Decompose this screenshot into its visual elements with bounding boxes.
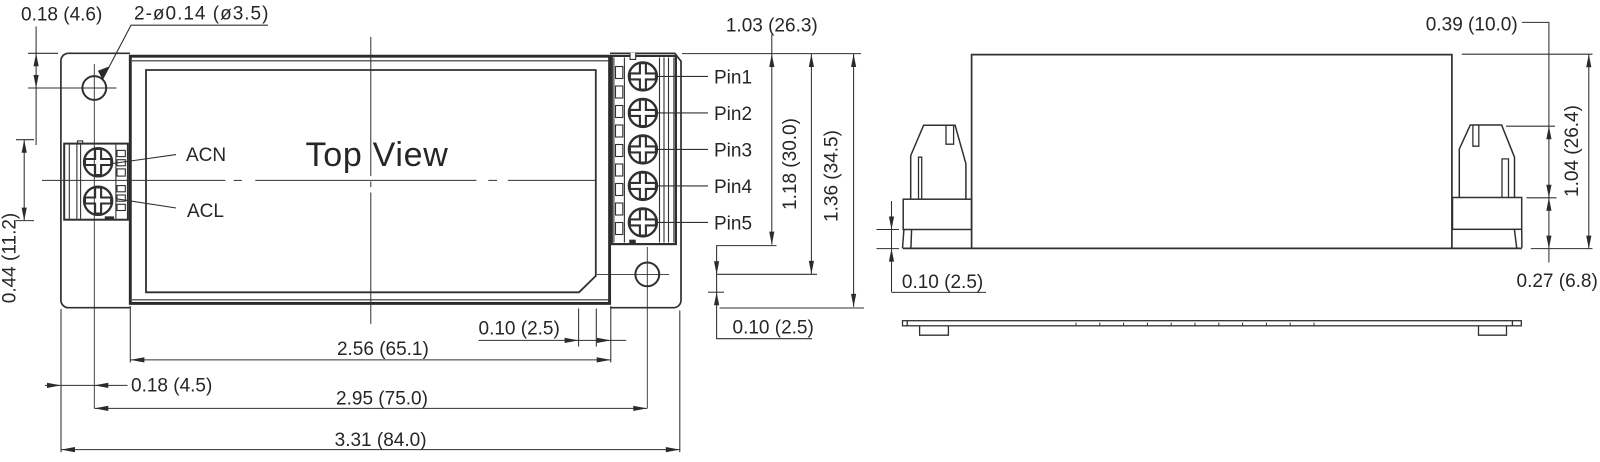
ext line flange bottom right [720, 307, 865, 309]
plate right clip [1479, 326, 1507, 335]
left latch foot [903, 199, 971, 229]
svg-text:2.95 (75.0): 2.95 (75.0) [336, 388, 428, 409]
screw ACN [84, 148, 112, 176]
right terminal block outline [612, 56, 676, 244]
right small foot [1514, 229, 1522, 248]
0.18(4.5) arrows [47, 383, 61, 388]
2.95 arrows [94, 406, 108, 411]
leader ACN [113, 155, 176, 164]
svg-text:2.56 (65.1): 2.56 (65.1) [337, 339, 429, 360]
top face rectangle with chamfered corner [146, 70, 596, 292]
dim 0.44 (11.2) line [23, 140, 25, 221]
ext body top right [1462, 53, 1593, 55]
dim 1.36 line [853, 54, 855, 307]
left latch hook [911, 125, 966, 199]
svg-text:ACN: ACN [186, 145, 226, 166]
3.31 arrows [61, 447, 75, 452]
svg-text:0.10 (2.5): 0.10 (2.5) [902, 272, 983, 293]
dim 0.18 (4.5) line [45, 384, 128, 386]
right latch foot [1453, 198, 1522, 230]
svg-text:Pin3: Pin3 [714, 140, 752, 161]
ext line block bottom [716, 245, 776, 247]
svg-text:0.10 (2.5): 0.10 (2.5) [479, 319, 560, 340]
dim 1.18 line [810, 54, 812, 274]
dim 2.95 line [94, 407, 647, 409]
left latch side slot [919, 157, 922, 199]
hole axis vertical right [646, 247, 648, 408]
left block top notch [78, 141, 83, 144]
mounting hole bottom-right [635, 263, 659, 287]
svg-text:Pin1: Pin1 [714, 67, 752, 88]
leader Pin2 [656, 112, 708, 114]
dim 0.18 (4.6) vertical line [35, 26, 37, 145]
horizontal centerline [42, 179, 596, 181]
leader Pin3 [656, 148, 708, 150]
1.04 arrows [1586, 54, 1591, 67]
svg-text:1.18 (30.0): 1.18 (30.0) [780, 118, 801, 210]
svg-text:0.18 (4.6): 0.18 (4.6) [21, 4, 102, 25]
body inner ledge top [132, 60, 608, 62]
screw Pin5 [629, 208, 657, 236]
dim 1.03 line [771, 35, 773, 245]
hole crosshair horizontal right [597, 273, 669, 275]
body inner ledge bottom [132, 299, 608, 301]
svg-text:ACL: ACL [187, 201, 224, 222]
screw Pin2 [629, 99, 657, 127]
ext hook top [1506, 125, 1555, 127]
svg-text:3.31 (84.0): 3.31 (84.0) [335, 430, 427, 451]
plate ticks [1076, 323, 1314, 326]
dim 1.04 line [1588, 54, 1590, 248]
right block left strip walls [613, 58, 615, 243]
left block inner walls [68, 145, 70, 219]
svg-text:Pin2: Pin2 [714, 104, 752, 125]
module body outline (thick) [130, 56, 609, 303]
svg-text:Pin4: Pin4 [714, 177, 752, 198]
screw Pin3 [629, 135, 657, 163]
screw Pin4 [629, 172, 657, 200]
leader ACL [117, 199, 177, 208]
0.18(4.6) arrows [33, 53, 38, 66]
ext line body top right [682, 53, 861, 55]
vertical centerline [370, 37, 372, 324]
0.10 right arrows (outside) [714, 261, 719, 274]
right latch side slot [1502, 159, 1509, 198]
left block clamp bars upper [117, 150, 125, 156]
left block bottom notch (dark) [105, 217, 113, 220]
svg-text:0.10 (2.5): 0.10 (2.5) [733, 318, 814, 339]
1.36 arrows [851, 54, 856, 67]
mounting plate below side view [903, 321, 1522, 336]
left mounting flange tab [61, 53, 130, 307]
svg-text:0.27 (6.8): 0.27 (6.8) [1517, 271, 1598, 292]
0.27 arrows [1546, 198, 1551, 211]
screw ACL [84, 187, 112, 215]
side body outline [903, 55, 1522, 249]
side 0.10 arrows [889, 217, 894, 230]
right mounting flange tab [610, 53, 681, 307]
left latch top slot [946, 125, 954, 144]
dim 0.10 side left [892, 201, 987, 292]
leader arrow hole [98, 66, 110, 79]
svg-text:1.03 (26.3): 1.03 (26.3) [726, 15, 818, 36]
right block right strip walls [659, 58, 661, 243]
svg-text:0.18 (4.5): 0.18 (4.5) [131, 376, 212, 397]
left small foot [903, 230, 912, 249]
leader Pin4 [656, 185, 708, 187]
svg-text:2-ø0.14 (ø3.5): 2-ø0.14 (ø3.5) [134, 4, 269, 25]
ext foot top right [1527, 197, 1557, 199]
0.10 bottom-left arrows [565, 338, 579, 343]
leader Pin1 [656, 75, 708, 77]
dim 0.39 leader and line [1522, 22, 1549, 262]
right block clamp rects column [616, 67, 623, 79]
ext line hole center right [717, 273, 817, 275]
left terminal block outline [64, 144, 128, 220]
dim 0.10 bottom-left shelf [479, 339, 627, 341]
1.18 arrows [809, 54, 814, 67]
right block top notch [630, 53, 636, 60]
leader Pin5 [656, 221, 708, 223]
mounting hole top-left [82, 76, 106, 100]
screw Pin1 [629, 62, 657, 90]
ext body bottom right [1531, 248, 1593, 250]
ext line face bottom right [708, 291, 724, 293]
plate bar [903, 321, 1522, 326]
right block bottom notch (dark) [630, 240, 635, 244]
plate left clip [920, 326, 949, 335]
arrowheads top view [22, 53, 857, 452]
leader line hole label [103, 25, 269, 79]
2.56 arrows [130, 357, 144, 362]
hole axis vertical left [93, 64, 95, 408]
svg-text:0.39 (10.0): 0.39 (10.0) [1426, 15, 1518, 36]
hole crosshair horizontal left (also ext line for 0.18 dim) [28, 87, 117, 89]
svg-text:Top View: Top View [306, 136, 449, 174]
dim 2.56 line [130, 359, 610, 361]
side view dimensions [877, 22, 1593, 292]
1.03 arrows [769, 54, 774, 67]
svg-text:1.04 (26.4): 1.04 (26.4) [1562, 105, 1583, 197]
svg-text:0.44 (11.2): 0.44 (11.2) [0, 213, 21, 303]
dim 3.31 line [61, 449, 680, 451]
svg-text:1.36 (34.5): 1.36 (34.5) [822, 130, 843, 222]
dim 0.10 right vertical [717, 246, 812, 339]
right latch hook [1459, 125, 1514, 198]
0.39 arrows [1546, 126, 1551, 139]
left block clamp bars lower [117, 186, 125, 192]
svg-text:Pin5: Pin5 [714, 213, 752, 234]
right latch top slot [1473, 125, 1479, 146]
0.44 arrows [22, 140, 27, 153]
